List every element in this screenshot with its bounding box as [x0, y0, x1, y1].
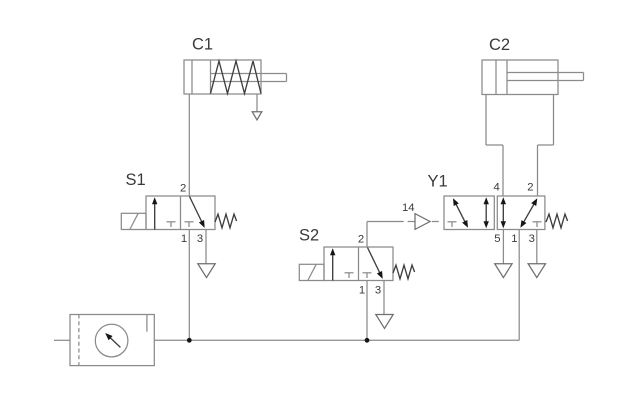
- exhaust vent of Y1 port 3: [528, 264, 545, 278]
- pipe C2 left port to Y1 port 4: [486, 95, 503, 197]
- wire S2 port 2 to pilot 14 of Y1: [367, 222, 404, 248]
- wire C1 vent: [256, 94, 258, 112]
- wire supply inlet: [54, 339, 70, 341]
- pilot actuator 14 of Y1: [408, 214, 439, 230]
- exhaust vent of S1: [198, 264, 215, 278]
- wire manifold: [189, 339, 367, 341]
- pressure gauge: [95, 324, 128, 357]
- air service unit (filter-regulator): [70, 315, 154, 366]
- svg-text:2: 2: [527, 182, 533, 194]
- spring return of S1: [215, 214, 237, 228]
- valve S1 (3/2-way, manual actuated, spring return): [146, 196, 215, 230]
- wire Y1 port 1 to manifold: [367, 230, 519, 341]
- junction node at S2 supply: [365, 338, 370, 343]
- svg-text:C1: C1: [192, 36, 213, 54]
- svg-text:C2: C2: [489, 36, 510, 54]
- cylinder C2 (double-acting): [482, 60, 584, 95]
- pipe C2 right port to Y1 port 2: [538, 95, 554, 197]
- manual actuator of S1: [121, 213, 146, 229]
- svg-text:S2: S2: [299, 227, 319, 245]
- wire Y1 port 5 vent: [502, 230, 504, 264]
- spring return of Y1: [546, 214, 568, 228]
- svg-text:S1: S1: [126, 171, 146, 189]
- valve S2 (3/2-way, manual actuated, spring return): [324, 247, 393, 281]
- exhaust vent of S2: [376, 315, 393, 329]
- svg-text:Y1: Y1: [428, 172, 448, 190]
- svg-text:3: 3: [197, 233, 203, 245]
- svg-text:3: 3: [529, 233, 535, 245]
- valve Y1 (5/2-way, pilot operated, spring return): [444, 196, 545, 230]
- spring return of S2: [393, 265, 415, 279]
- svg-text:14: 14: [402, 202, 415, 214]
- svg-text:2: 2: [180, 182, 186, 194]
- svg-text:1: 1: [511, 233, 517, 245]
- wire S2 port 3 vent: [383, 281, 385, 315]
- svg-text:5: 5: [494, 233, 500, 245]
- wire Y1 port 3 vent: [536, 230, 538, 264]
- manual actuator of S2: [299, 264, 324, 280]
- svg-text:2: 2: [358, 233, 364, 245]
- wire S2 port 1 to manifold: [366, 281, 368, 341]
- wire S1 port 1 to manifold: [188, 230, 190, 341]
- svg-text:1: 1: [359, 284, 365, 296]
- exhaust vent of Y1 port 5: [495, 264, 512, 278]
- wire S1 port 3 vent: [205, 230, 207, 264]
- wire service unit to manifold: [154, 339, 189, 341]
- exhaust vent of C1: [252, 112, 262, 120]
- svg-text:4: 4: [494, 182, 500, 194]
- svg-text:3: 3: [375, 284, 381, 296]
- cylinder C1 (single-acting, spring return): [184, 60, 287, 94]
- junction node at S1 supply: [187, 338, 192, 343]
- wire C1 port to S1 port 2: [188, 94, 190, 196]
- svg-text:1: 1: [181, 233, 187, 245]
